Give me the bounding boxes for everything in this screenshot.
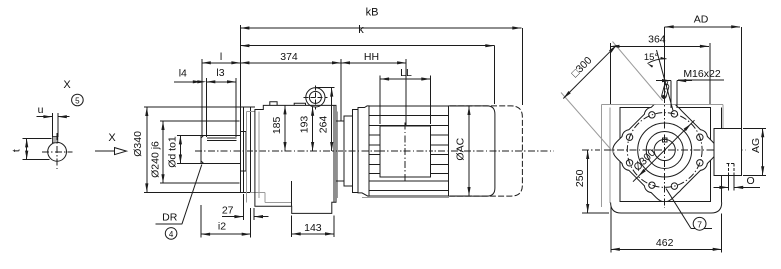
svg-text:143: 143: [304, 222, 322, 234]
svg-text:HH: HH: [364, 51, 379, 63]
svg-text:k: k: [358, 24, 364, 36]
svg-text:5: 5: [75, 97, 80, 106]
svg-text:4: 4: [169, 230, 174, 239]
svg-text:364: 364: [648, 34, 666, 46]
svg-text:7: 7: [697, 219, 702, 229]
svg-text:Ø240 j6: Ø240 j6: [150, 141, 162, 178]
svg-text:O: O: [747, 175, 755, 187]
svg-text:193: 193: [299, 116, 311, 134]
svg-text:250: 250: [574, 169, 586, 187]
svg-text:LL: LL: [400, 67, 412, 79]
svg-text:264: 264: [318, 116, 330, 134]
svg-text:AG: AG: [750, 138, 762, 153]
svg-text:AD: AD: [694, 14, 709, 26]
svg-text:l4: l4: [179, 68, 187, 80]
svg-text:i2: i2: [218, 221, 226, 233]
svg-text:kB: kB: [366, 7, 379, 19]
svg-text:15°: 15°: [644, 52, 659, 63]
svg-text:X: X: [108, 132, 116, 144]
svg-text:DR: DR: [162, 212, 178, 224]
svg-text:ØAC: ØAC: [454, 137, 466, 160]
svg-text:l3: l3: [216, 67, 224, 79]
svg-text:X: X: [63, 79, 71, 91]
svg-text:Ø340: Ø340: [132, 131, 144, 157]
svg-text:u: u: [38, 104, 44, 116]
svg-text:185: 185: [271, 116, 283, 134]
svg-text:462: 462: [656, 237, 674, 249]
svg-text:27: 27: [222, 205, 234, 217]
svg-text:l: l: [220, 51, 222, 63]
svg-text:374: 374: [280, 51, 298, 63]
svg-text:t: t: [11, 149, 23, 152]
svg-text:Ød to1: Ød to1: [167, 136, 179, 168]
svg-text:M16x22: M16x22: [683, 68, 721, 80]
